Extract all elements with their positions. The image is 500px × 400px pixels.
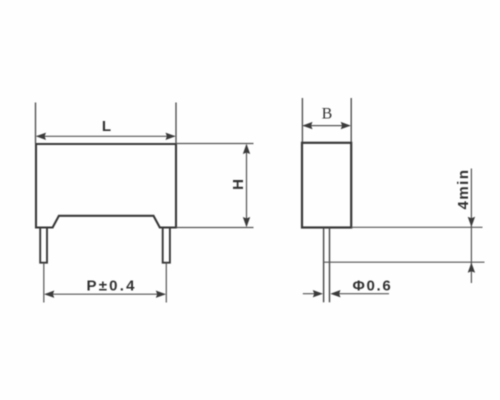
svg-text:L: L bbox=[102, 118, 111, 135]
extension line right of dimension P bbox=[165, 263, 167, 303]
extension line left of dimension P bbox=[43, 263, 45, 303]
side view: extension line left of dimension B bbox=[301, 98, 303, 142]
dimension line B with arrowheads bbox=[302, 122, 351, 129]
extension line bottom of dimension H bbox=[176, 227, 254, 229]
front view: extension line left of dimension L bbox=[35, 103, 37, 144]
svg-text:B: B bbox=[322, 106, 333, 123]
svg-text:P±0.4: P±0.4 bbox=[87, 278, 137, 295]
lead, side view (right edge) bbox=[329, 228, 331, 303]
capacitor body, side view bbox=[302, 143, 351, 228]
svg-text:4min: 4min bbox=[455, 168, 472, 209]
extension line top of dimension 4min bbox=[351, 226, 482, 228]
dimension Φ0.6 right arrow bbox=[330, 290, 389, 297]
front view: extension line right of dimension L bbox=[175, 103, 177, 144]
capacitor body, front view bbox=[36, 144, 176, 228]
dimension line H with arrowheads bbox=[243, 144, 250, 227]
lead, side view (left edge) bbox=[323, 228, 325, 303]
dimension line L with arrowheads bbox=[36, 133, 176, 140]
side view: extension line right of dimension B bbox=[350, 98, 352, 142]
dimension line 4min with arrowheads bbox=[468, 169, 475, 284]
left lead, front view bbox=[40, 228, 47, 263]
svg-text:H: H bbox=[230, 179, 247, 190]
svg-text:Φ0.6: Φ0.6 bbox=[353, 277, 393, 294]
dimension Φ0.6 left arrow bbox=[303, 290, 323, 297]
dimension line P with arrowheads bbox=[44, 291, 166, 298]
extension line bottom of dimension 4min bbox=[324, 261, 485, 263]
extension line top of dimension H bbox=[176, 143, 254, 145]
right lead, front view bbox=[163, 228, 170, 263]
